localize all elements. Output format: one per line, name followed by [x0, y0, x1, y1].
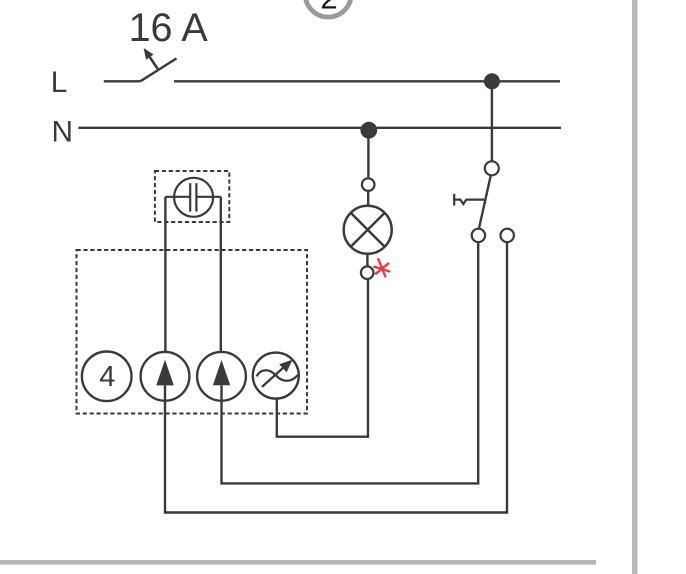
terminal (switch top): [485, 161, 499, 175]
main unit dashed enclosure: [77, 250, 308, 414]
capacitive sensor symbol: [165, 178, 220, 217]
svg-text:4: 4: [99, 361, 115, 393]
wire L right segment: [174, 80, 560, 82]
terminal (switch output left): [472, 229, 485, 242]
junction node on N (lamp branch): [360, 122, 377, 139]
page column rule (gray vertical): [632, 0, 637, 574]
wire lamp branch down: [367, 279, 369, 438]
svg-text:2: 2: [320, 0, 337, 15]
wire L left segment: [104, 80, 141, 82]
arrow pointing to breaker blade: [144, 48, 158, 69]
terminal (lamp bottom): [361, 266, 374, 279]
step badge 2: [305, 0, 351, 17]
channel badge 4: [82, 352, 132, 402]
wire sensor right lead down: [220, 197, 222, 352]
load symbol M2 (triangle): [197, 352, 246, 401]
red footnote asterisk: [375, 259, 390, 276]
wire lamp to lower terminal: [366, 254, 368, 267]
wire M1 to switch output right (outer loop): [165, 242, 507, 512]
wire N junction down to lamp terminal: [367, 134, 369, 178]
wire M2 to switch output left (middle loop): [222, 242, 479, 483]
breaker switch blade (16 A): [140, 58, 176, 81]
wire sensor left lead down: [164, 197, 166, 352]
push-button actuator: [454, 194, 484, 206]
junction node on L (switch branch): [484, 73, 500, 89]
svg-text:N: N: [52, 116, 74, 149]
lamp E1: [344, 206, 392, 254]
extension sensor dashed enclosure: [155, 171, 229, 222]
svg-text:L: L: [51, 66, 68, 99]
terminal (lamp top): [362, 178, 375, 191]
wire L junction down to switch: [491, 85, 493, 161]
push-button switch blade: [479, 175, 491, 229]
svg-text:16 A: 16 A: [129, 6, 209, 50]
wire N: [78, 127, 561, 129]
wire dimmer to lamp branch (inner loop): [277, 399, 368, 437]
terminal (switch output right): [501, 229, 514, 242]
dimmer symbol: [253, 353, 299, 399]
wire terminal to lamp: [367, 191, 369, 206]
page footer rule (gray horizontal): [0, 560, 596, 565]
load symbol M1 (triangle): [141, 352, 190, 401]
